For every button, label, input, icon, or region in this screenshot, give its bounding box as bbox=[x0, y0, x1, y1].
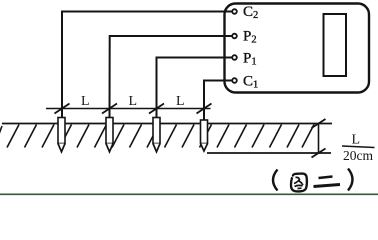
dimension tick at electrode E1 bbox=[55, 104, 70, 114]
caption character ER (二) bbox=[314, 177, 341, 187]
svg-text:P2: P2 bbox=[243, 29, 257, 46]
ground hatching bbox=[0, 125, 314, 148]
depth dimension tick top bbox=[312, 119, 326, 128]
caption character TU (handwritten 图) bbox=[291, 174, 307, 192]
wire P1 bbox=[157, 58, 235, 119]
depth reference line (bottom of buried rods) bbox=[207, 152, 331, 154]
svg-text:P1: P1 bbox=[243, 51, 257, 68]
dimension tick at electrode E4 bbox=[197, 104, 212, 114]
svg-text:L: L bbox=[81, 94, 90, 109]
dimension tick at electrode E3 bbox=[149, 104, 164, 114]
terminal C1 bbox=[232, 78, 237, 83]
electrode E4 bbox=[201, 120, 208, 151]
ground surface line bbox=[2, 123, 332, 125]
electrode E1 bbox=[58, 118, 65, 152]
meter U1 (earth resistance tester body) bbox=[225, 4, 370, 93]
depth label fraction L / 20cm bbox=[342, 133, 375, 164]
caption right parenthesis bbox=[348, 169, 353, 191]
wire P2 bbox=[110, 36, 235, 118]
dimension line for electrode spacing bbox=[46, 108, 211, 110]
meter display window bbox=[324, 14, 347, 76]
electrode E2 bbox=[106, 118, 113, 152]
terminal C2 bbox=[232, 9, 237, 14]
svg-text:L: L bbox=[352, 133, 361, 148]
electrode E3 bbox=[153, 118, 160, 152]
svg-text:L: L bbox=[129, 94, 138, 109]
wire C2 bbox=[62, 12, 235, 119]
svg-text:20cm: 20cm bbox=[343, 148, 373, 163]
wire C1 bbox=[204, 81, 235, 122]
svg-text:C2: C2 bbox=[243, 4, 258, 21]
dimension tick at electrode E2 bbox=[102, 104, 117, 114]
terminal P2 bbox=[232, 34, 237, 39]
svg-text:L: L bbox=[176, 94, 185, 109]
terminal P1 bbox=[232, 55, 237, 60]
depth dimension tick bottom bbox=[312, 149, 326, 158]
depth dimension line bbox=[318, 124, 320, 154]
caption (figure 2) left parenthesis bbox=[273, 170, 278, 191]
svg-text:C1: C1 bbox=[243, 74, 258, 91]
